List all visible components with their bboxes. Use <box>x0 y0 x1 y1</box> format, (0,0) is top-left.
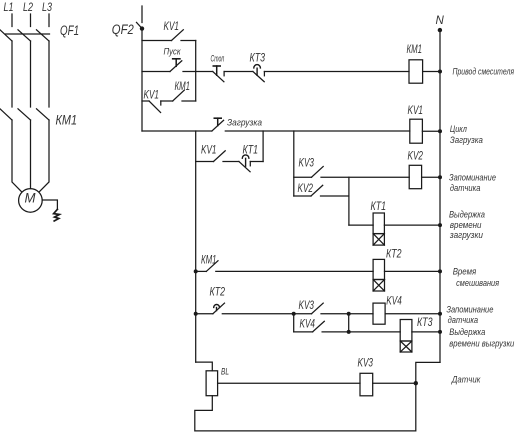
svg-text:KV2: KV2 <box>408 151 424 163</box>
pushbutton Стоп blade <box>213 72 224 82</box>
contact KV1 (load hold) left wire <box>196 161 214 163</box>
svg-text:N: N <box>436 15 445 27</box>
contact KV4 right wire <box>322 331 400 333</box>
svg-text:Загрузка: Загрузка <box>450 135 483 145</box>
node dot KV4 rung / N rail <box>438 312 442 316</box>
wire КТ2 to KV3 contact <box>222 313 311 315</box>
wire L2 top <box>30 14 32 27</box>
wire Загрузка rung left <box>142 130 212 132</box>
svg-text:КМ1: КМ1 <box>407 44 423 56</box>
node QF2 junction dot <box>140 26 144 30</box>
contact KV2 left wire <box>294 195 311 197</box>
svg-text:Время: Время <box>453 267 477 277</box>
svg-text:КТ3: КТ3 <box>417 317 433 329</box>
contact KM1 (latch bottom) right wire <box>182 100 196 102</box>
wire Загрузка rung right <box>225 130 409 132</box>
wire N rail bottom step <box>195 362 440 431</box>
svg-text:M: M <box>25 190 36 206</box>
circuit breaker QF1 pole 2 blade <box>18 30 31 41</box>
svg-text:Запоминание: Запоминание <box>449 173 496 183</box>
svg-text:Выдержка: Выдержка <box>449 327 485 337</box>
node dot group2 right bottom <box>347 330 351 334</box>
contact KV2 blade <box>311 185 323 196</box>
wire group2 right rail <box>348 314 350 332</box>
svg-text:Датчик: Датчик <box>451 375 481 385</box>
wire motor phase 2 <box>30 120 32 189</box>
svg-text:КТ1: КТ1 <box>371 201 387 213</box>
pushbutton Загрузка blade <box>212 120 224 131</box>
svg-text:датчика: датчика <box>448 315 479 325</box>
node dot N top <box>438 28 442 32</box>
contact KV1 (latch bottom) blade <box>149 101 161 113</box>
wire L1 top <box>11 14 13 27</box>
node dot КТ2 rung / N rail <box>438 269 442 273</box>
wire N rail <box>439 30 441 362</box>
contact KV2 right wire <box>321 195 349 197</box>
coil КТ3 <box>400 320 412 342</box>
svg-text:KV1: KV1 <box>164 21 180 33</box>
coil КТ3 mechanism box <box>400 341 412 352</box>
contact KV1 (latch top) right wire <box>181 40 196 42</box>
node dot КТ2 rung left <box>194 312 198 316</box>
svg-text:датчика: датчика <box>450 183 481 193</box>
svg-text:L1: L1 <box>4 2 14 14</box>
circuit breaker QF1 pole 1 blade <box>0 30 12 41</box>
contact КТ1 blade <box>239 162 250 172</box>
wire left rail A <box>141 29 143 131</box>
node dot KV1 rung / N rail <box>438 129 442 133</box>
svg-text:KV4: KV4 <box>386 296 402 308</box>
thermal element zigzag <box>54 209 60 221</box>
contact KV1 (latch bottom) left wire <box>142 100 149 102</box>
svg-text:Пуск: Пуск <box>164 47 182 57</box>
svg-text:QF2: QF2 <box>112 21 134 37</box>
pushbutton Загрузка T-bar <box>214 117 221 119</box>
contact KV1 (load hold) blade <box>214 151 226 162</box>
wire KV3 coil to junction <box>373 382 416 384</box>
wire L3 middle <box>48 41 50 107</box>
contact КТ2 blade <box>213 303 225 314</box>
svg-text:Загрузка: Загрузка <box>227 118 262 128</box>
svg-text:смешивания: смешивания <box>456 278 499 288</box>
wire KV3 to KV2 coil <box>321 176 409 178</box>
svg-text:KV3: KV3 <box>358 358 374 370</box>
contact КТ3 seat <box>263 72 265 76</box>
coil KV4 <box>373 303 385 324</box>
svg-text:BL: BL <box>221 367 229 377</box>
node dot KM1 rung / N rail <box>438 70 442 74</box>
coil КТ2 <box>373 259 384 279</box>
coil КТ2 mechanism box <box>373 280 384 292</box>
svg-text:Стоп: Стоп <box>211 53 225 63</box>
contact KV1 (latch top) left wire <box>142 40 172 42</box>
wire motor right lead <box>42 200 57 209</box>
coil КТ1 mechanism X <box>373 234 384 246</box>
svg-text:КТ3: КТ3 <box>250 52 266 64</box>
wire group right rail <box>348 177 350 225</box>
wire right rail of latch <box>195 41 197 102</box>
coil KV2 <box>409 165 421 188</box>
contact KV3 blade <box>312 303 324 314</box>
node dot KM1 rung left <box>194 269 198 273</box>
pushbutton Пуск left wire <box>142 71 170 73</box>
wire group2 left rail <box>293 314 295 332</box>
pushbutton Стоп T-bar <box>213 65 220 67</box>
switch QF2 blade <box>137 22 143 28</box>
contact КТ2 time dome <box>214 305 220 308</box>
wire KV4 coil to N rail <box>385 313 440 315</box>
wire BL to KV3 coil <box>218 382 360 384</box>
contact КТ2 stem <box>216 308 218 311</box>
node dot group2 left top <box>292 312 296 316</box>
wire L3 top <box>48 14 50 27</box>
svg-text:L2: L2 <box>23 2 33 14</box>
node dot KV2 rung / N rail <box>438 175 442 179</box>
svg-text:QF1: QF1 <box>60 22 79 38</box>
sensor BL body <box>206 371 218 396</box>
svg-text:времени выгрузки: времени выгрузки <box>449 339 514 349</box>
svg-text:KV4: KV4 <box>300 319 316 331</box>
wire KV1 to КТ1 contact <box>223 161 239 163</box>
contact KV1 (latch top) blade <box>172 30 184 41</box>
coil КТ2 mechanism X <box>373 280 384 292</box>
contact KM1 blade <box>206 261 218 272</box>
contact KV1 (latch bottom) seat <box>160 101 162 105</box>
wire L1 middle <box>11 41 13 107</box>
wire Пуск to Стоп <box>183 71 213 73</box>
contact КТ1 stem <box>245 158 247 166</box>
pushbutton Пуск stem <box>175 59 177 67</box>
svg-text:КМ1: КМ1 <box>56 112 78 128</box>
svg-text:загрузки: загрузки <box>449 230 483 240</box>
svg-text:KV2: KV2 <box>298 183 314 195</box>
contactor KM1 pole 3 blade <box>37 109 50 120</box>
contact КТ1 time dome <box>242 155 249 158</box>
svg-text:KV1: KV1 <box>408 105 424 117</box>
svg-text:Привод смесителя: Привод смесителя <box>453 67 515 77</box>
contact КТ2 left wire <box>196 313 213 315</box>
contact КТ3 time dome <box>254 65 261 68</box>
circuit breaker QF1 linkage bar <box>6 33 50 35</box>
motor M circle <box>19 189 43 213</box>
wire KM1 coil to N rail <box>423 71 440 73</box>
wire КТ1 coil to N rail <box>384 224 440 226</box>
contact KM1 (latch bottom) blade <box>173 90 185 101</box>
contact KV4 blade <box>313 321 325 332</box>
svg-text:КТ2: КТ2 <box>386 249 402 261</box>
contact KV3 left wire <box>294 176 312 178</box>
contact KV4 left wire <box>294 331 313 333</box>
wire KM1 to КТ2 coil <box>216 270 373 272</box>
node dot КТ1 rung / N rail <box>438 223 442 227</box>
coil KM1 <box>409 60 423 83</box>
svg-text:КТ2: КТ2 <box>210 287 226 299</box>
wire KV2 coil to N rail <box>422 176 440 178</box>
coil КТ1 <box>373 213 384 234</box>
wire drop to KV1-KT1 rung <box>262 131 264 162</box>
pushbutton Стоп seat <box>223 72 225 76</box>
wire Стоп to КТ3 <box>224 71 253 73</box>
contact KV3 blade <box>312 167 324 178</box>
svg-text:L3: L3 <box>42 2 52 14</box>
contactor KM1 pole 1 blade <box>0 109 12 120</box>
coil KV1 <box>410 119 423 143</box>
node dot group2 right top <box>347 312 351 316</box>
wire middle rail B <box>195 131 197 362</box>
pushbutton Загрузка stem <box>217 118 219 125</box>
wire KV1 coil to N rail <box>422 130 440 132</box>
svg-text:времени: времени <box>450 220 482 230</box>
contactor KM1 pole 2 blade <box>18 109 31 120</box>
svg-text:KV3: KV3 <box>299 300 315 312</box>
wire motor phase 1 <box>12 120 22 192</box>
wire rail B to BL step <box>196 362 213 371</box>
svg-text:Цикл: Цикл <box>450 124 467 134</box>
wire L2 middle <box>30 41 32 107</box>
pushbutton Стоп stem <box>216 66 218 75</box>
pushbutton Пуск blade <box>170 61 182 72</box>
wire КТ3 coil to N rail <box>412 331 440 333</box>
wire to КТ1 coil <box>349 224 373 226</box>
pushbutton Пуск T-bar <box>173 58 180 60</box>
wire control feed top <box>141 6 143 23</box>
node dot КТ3 rung / N rail <box>438 330 442 334</box>
contact КТ3 blade <box>253 72 264 82</box>
svg-text:Запоминание: Запоминание <box>446 305 493 315</box>
coil КТ1 mechanism box <box>373 234 384 246</box>
circuit breaker QF1 pole 3 blade <box>37 30 50 41</box>
wire КТ3 to KM1 coil <box>264 71 409 73</box>
coil KV3 <box>360 373 373 396</box>
svg-text:KV3: KV3 <box>299 158 315 170</box>
wire drop to KV3-KV2 group <box>293 131 295 196</box>
wire KV1 to KM1 contact <box>161 100 173 102</box>
contact КТ1 seat <box>249 162 251 166</box>
wire КТ2 coil to N rail <box>385 270 441 272</box>
svg-text:KV1: KV1 <box>201 145 217 157</box>
svg-text:Выдержка: Выдержка <box>449 210 485 220</box>
svg-text:KV1: KV1 <box>144 90 160 102</box>
wire КТ1 to corner <box>250 161 263 163</box>
contact KM1 left wire <box>196 270 207 272</box>
contact КТ3 stem <box>256 68 258 75</box>
coil КТ3 mechanism X <box>400 341 412 352</box>
node dot sensor junction <box>414 381 418 385</box>
wire motor phase 3 <box>39 120 49 192</box>
wire KV3 to KV4 coil <box>321 313 373 315</box>
